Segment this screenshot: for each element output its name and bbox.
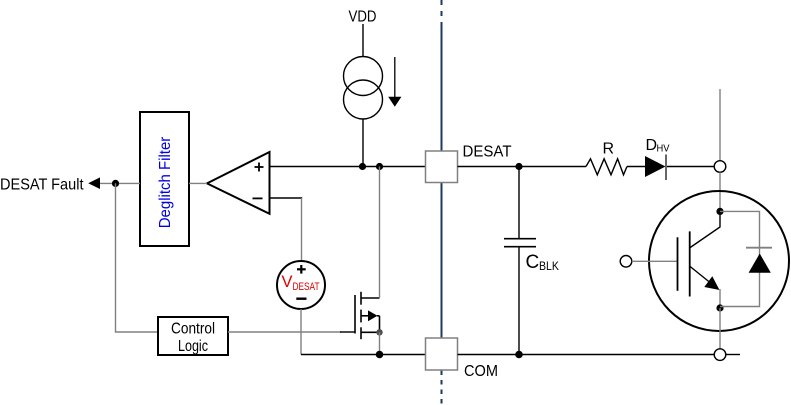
node junction dot (current source / DESAT net) <box>359 163 366 170</box>
svg-text:HV: HV <box>657 143 670 155</box>
wire current source to DESAT net <box>362 119 364 167</box>
node junction dot (CBLK top) <box>515 163 522 170</box>
svg-text:C: C <box>526 252 540 273</box>
resistor R <box>586 159 627 175</box>
IC boundary line (middle solid) <box>441 182 443 338</box>
wire collector terminal into IGBT <box>719 172 721 208</box>
capacitor CBLK <box>504 239 536 247</box>
svg-text:Deglitch Filter: Deglitch Filter <box>157 137 174 229</box>
svg-text:VDD: VDD <box>349 9 377 26</box>
IGBT emitter lead <box>690 266 711 283</box>
IGBT outline circle <box>649 191 789 331</box>
svg-text:R: R <box>603 141 615 158</box>
MOSFET drain wire up to DESAT net <box>379 167 381 299</box>
svg-text:DESAT: DESAT <box>463 144 512 161</box>
current source I (two overlapping circles) <box>344 57 383 120</box>
IGBT gate bar <box>677 237 679 290</box>
IC boundary dashed line (bottom dashes) <box>441 371 443 405</box>
IGBT collector lead <box>690 211 721 248</box>
wire VDESAT to COM net <box>300 309 302 355</box>
wire emitter terminal stub <box>726 354 740 356</box>
voltage source VDESAT <box>277 261 325 309</box>
wire DESAT net (comparator + to DESAT pin) <box>270 166 426 168</box>
anti-parallel diode triangle <box>749 254 771 273</box>
MOSFET source/body junction dot <box>376 329 382 335</box>
wire COM pin to emitter terminal <box>458 354 715 356</box>
comparator U1 <box>207 152 270 214</box>
svg-text:D: D <box>646 137 658 154</box>
wire emitter to bottom terminal <box>719 308 721 349</box>
node junction dot (MOSFET source / COM net) <box>376 351 384 359</box>
svg-text:COM: COM <box>464 363 498 380</box>
wire CBLK top lead <box>518 167 520 239</box>
node junction dot (MOSFET drain / DESAT net) <box>376 163 383 170</box>
IGBT body bar <box>689 231 691 296</box>
svg-text:DESAT: DESAT <box>293 281 320 293</box>
IGBT gate wire <box>632 260 677 262</box>
diode DHV <box>645 155 666 181</box>
node junction dot (collector) <box>716 208 723 215</box>
node junction dot (emitter) <box>716 304 723 311</box>
wire VDD to current source <box>362 24 364 57</box>
anti-parallel diode cathode bar <box>746 247 772 249</box>
wire gate lead <box>340 331 355 333</box>
wire DESAT pin to resistor <box>458 166 587 168</box>
IC boundary line (upper solid) <box>441 22 443 151</box>
wire COM net (left run) <box>301 354 426 356</box>
svg-text:V: V <box>282 273 293 291</box>
wire fault node down to control logic <box>116 183 159 332</box>
svg-text:Control: Control <box>171 321 215 338</box>
svg-text:Logic: Logic <box>178 338 208 355</box>
wire control logic to MOSFET gate <box>228 331 341 333</box>
svg-text:DESAT Fault: DESAT Fault <box>0 177 84 194</box>
DESAT Fault output arrowhead <box>88 177 100 189</box>
wire comparator output to deglitch filter <box>189 182 207 184</box>
node junction dot (fault / control logic) <box>112 180 119 187</box>
IGBT gate terminal circle <box>620 255 632 267</box>
wire CBLK bottom lead <box>518 247 520 355</box>
COM pin box <box>426 338 458 370</box>
MOSFET body arrow <box>368 310 378 321</box>
current direction arrow <box>388 57 401 107</box>
wire collector top <box>719 89 721 161</box>
control logic block <box>158 317 228 355</box>
IGBT emitter vertical <box>719 289 721 308</box>
IC boundary dashed line (top dashes) <box>441 0 443 20</box>
wire comparator inverting input <box>270 197 303 199</box>
deglitch filter block <box>140 112 189 246</box>
IGBT emitter arrowhead <box>704 276 719 290</box>
wire MOSFET source to COM net <box>379 332 381 354</box>
MOSFET Q1 <box>355 292 380 339</box>
anti-parallel diode branch wires <box>720 211 760 306</box>
wire resistor to diode <box>627 166 645 168</box>
emitter terminal circle <box>714 349 726 361</box>
collector terminal circle <box>714 161 726 173</box>
DESAT pin box <box>426 151 458 183</box>
wire deglitch filter to fault arrow <box>100 182 140 184</box>
svg-text:BLK: BLK <box>539 261 559 273</box>
node junction dot (CBLK bottom / COM) <box>515 351 523 359</box>
wire diode to collector terminal <box>667 166 714 168</box>
